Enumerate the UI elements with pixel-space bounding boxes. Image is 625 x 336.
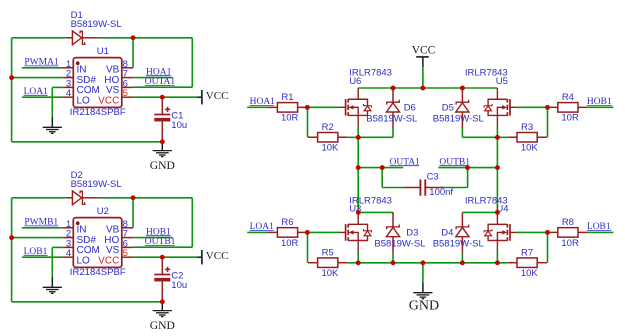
svg-text:VB: VB (106, 224, 120, 235)
wire (133, 246, 192, 248)
junction (460, 86, 465, 91)
net label OUTA1 (145, 77, 176, 87)
svg-text:10u: 10u (171, 120, 187, 131)
svg-text:R5: R5 (322, 247, 334, 258)
power port VCC (197, 250, 229, 264)
wire (307, 231, 339, 233)
svg-text:10K: 10K (321, 143, 339, 154)
junction (391, 260, 396, 265)
svg-text:R7: R7 (521, 247, 533, 258)
wire (51, 87, 53, 117)
svg-text:4: 4 (66, 248, 71, 259)
resistor R1 (268, 92, 308, 124)
svg-text:B5819W-SL: B5819W-SL (374, 239, 425, 250)
net label OUTB1 (439, 157, 470, 167)
ground (413, 293, 432, 299)
wire (12, 77, 63, 79)
wire (12, 37, 66, 39)
wire (461, 253, 463, 263)
svg-text:U6: U6 (349, 76, 361, 87)
wire (22, 227, 62, 229)
net label LOB1 (587, 222, 612, 232)
svg-text:10K: 10K (321, 268, 339, 279)
net label HOA1 (250, 97, 276, 107)
ground (153, 151, 172, 157)
resistor R8 (548, 217, 588, 249)
svg-text:VS: VS (106, 85, 120, 96)
ground (51, 117, 53, 127)
net label OUTB1 (145, 237, 176, 247)
junction (160, 299, 165, 304)
IC U1 IR2184SPBF gate driver (62, 46, 133, 118)
wire (22, 256, 62, 258)
wire (358, 87, 497, 89)
svg-text:10R: 10R (561, 238, 579, 249)
svg-text:VCC: VCC (206, 90, 229, 102)
svg-text:GND: GND (150, 159, 175, 172)
svg-text:IN: IN (77, 224, 87, 235)
svg-text:GND: GND (150, 319, 175, 332)
svg-text:5: 5 (123, 88, 128, 99)
junction (160, 255, 165, 260)
net label PWMB1 (24, 218, 58, 228)
wire (547, 107, 549, 137)
wire (97, 37, 192, 39)
svg-text:LO: LO (77, 96, 91, 107)
svg-text:R4: R4 (562, 92, 574, 103)
transistor U5 IRLR7843 (465, 68, 517, 126)
svg-text:HO: HO (104, 235, 119, 246)
wire (517, 231, 548, 233)
wire (22, 96, 62, 98)
junction (131, 195, 136, 200)
junction (160, 95, 165, 100)
wire (382, 167, 403, 169)
svg-text:D6: D6 (404, 103, 416, 114)
wire (133, 256, 197, 258)
svg-text:COM: COM (77, 245, 100, 256)
wire (547, 232, 549, 262)
wire (392, 127, 394, 137)
svg-text:4: 4 (66, 88, 71, 99)
svg-text:SD#: SD# (77, 235, 97, 246)
transistor U4 IRLR7843 (465, 196, 517, 251)
junction (131, 35, 136, 40)
junction (356, 165, 361, 170)
svg-text:VCC: VCC (206, 250, 229, 262)
svg-text:R1: R1 (281, 92, 293, 103)
resistor R4 (548, 92, 588, 124)
wire (462, 136, 497, 138)
junction (545, 230, 550, 235)
junction (495, 260, 500, 265)
ground (43, 127, 62, 133)
wire (467, 168, 469, 188)
svg-text:B5819W-SL: B5819W-SL (71, 179, 122, 190)
svg-text:10R: 10R (561, 113, 579, 124)
wire (392, 212, 394, 213)
junction (495, 135, 500, 140)
junction (9, 75, 14, 80)
svg-text:10K: 10K (521, 268, 539, 279)
svg-text:10R: 10R (281, 238, 299, 249)
transistor U6 IRLR7843 (339, 68, 392, 126)
junction (160, 139, 165, 144)
wire (191, 198, 193, 247)
wire (348, 262, 507, 264)
wire (133, 96, 197, 98)
wire (392, 253, 394, 263)
wire (357, 251, 359, 263)
wire (422, 67, 424, 88)
wire (307, 107, 309, 137)
wire (588, 231, 614, 233)
svg-text:B5819W-SL: B5819W-SL (366, 113, 417, 124)
net label LOB1 (24, 247, 48, 257)
net label HOB1 (587, 97, 612, 107)
svg-text:B5819W-SL: B5819W-SL (433, 113, 484, 124)
net label LOA1 (24, 87, 49, 97)
svg-text:VCC: VCC (98, 256, 119, 267)
resistor R2 (308, 122, 348, 154)
net label LOA1 (250, 222, 275, 232)
junction (356, 260, 361, 265)
wire (133, 237, 173, 239)
svg-text:IR2184SPBF: IR2184SPBF (70, 107, 126, 118)
svg-text:10K: 10K (521, 143, 539, 154)
svg-text:D4: D4 (441, 227, 453, 238)
svg-text:R3: R3 (521, 122, 533, 133)
capacitor C3 100nf (403, 172, 453, 199)
diode D6 B5819W-SL (366, 89, 417, 128)
svg-text:U1: U1 (97, 46, 109, 57)
wire (133, 77, 173, 79)
IC U2 IR2184SPBF gate driver (62, 206, 133, 278)
wire (52, 86, 62, 88)
svg-text:U2: U2 (97, 206, 109, 217)
wire (52, 246, 62, 248)
wire (461, 212, 463, 213)
wire (348, 136, 359, 138)
svg-text:VCC: VCC (98, 96, 119, 107)
svg-text:R6: R6 (281, 217, 293, 228)
svg-text:R8: R8 (562, 217, 574, 228)
transistor U3 IRLR7843 (339, 196, 392, 251)
wire (12, 237, 63, 239)
svg-text:VS: VS (106, 245, 120, 256)
wire (132, 38, 134, 68)
diode D4 B5819W-SL (433, 213, 484, 254)
diode D2 B5819W-SL (65, 170, 121, 205)
wire (588, 106, 614, 108)
svg-text:VCC: VCC (412, 45, 436, 57)
svg-text:B5819W-SL: B5819W-SL (71, 19, 122, 30)
capacitor C2 (154, 257, 187, 302)
net label OUTA1 (390, 157, 421, 167)
wire (11, 198, 13, 302)
ground (51, 277, 53, 287)
wire (307, 106, 339, 108)
svg-text:IR2184SPBF: IR2184SPBF (70, 267, 126, 278)
ground GND (161, 302, 163, 311)
wire (462, 211, 497, 213)
svg-text:R2: R2 (322, 122, 334, 133)
wire (461, 127, 463, 137)
junction (545, 105, 550, 110)
svg-text:5: 5 (123, 248, 128, 259)
capacitor C1 (154, 97, 187, 142)
svg-text:VB: VB (106, 64, 120, 75)
junction (465, 165, 470, 170)
diode D1 B5819W-SL (65, 10, 121, 45)
svg-text:SD#: SD# (77, 75, 97, 86)
wire (381, 168, 383, 188)
junction (356, 210, 361, 215)
svg-text:10R: 10R (281, 113, 299, 124)
power port VCC (412, 45, 436, 68)
junction (356, 135, 361, 140)
svg-text:D5: D5 (442, 103, 454, 114)
junction (391, 86, 396, 91)
junction (495, 165, 500, 170)
wire (12, 301, 163, 303)
wire (438, 167, 497, 169)
wire (517, 106, 548, 108)
svg-text:B5819W-SL: B5819W-SL (433, 239, 484, 250)
junction (380, 165, 385, 170)
junction (460, 260, 465, 265)
wire (422, 263, 424, 283)
wire (247, 231, 268, 233)
junction (305, 105, 310, 110)
resistor R6 (268, 217, 308, 249)
wire (51, 247, 53, 277)
svg-text:D3: D3 (406, 227, 418, 238)
svg-text:GND: GND (409, 299, 439, 314)
wire (358, 211, 393, 213)
wire (497, 136, 507, 138)
wire (358, 167, 382, 169)
wire (191, 38, 193, 87)
wire OUTB1 column (496, 126, 498, 213)
wire (443, 187, 468, 189)
wire (12, 141, 163, 143)
junction (420, 86, 425, 91)
resistor R5 (308, 247, 348, 279)
ground (153, 311, 172, 317)
wire (358, 136, 393, 138)
svg-text:COM: COM (77, 85, 100, 96)
svg-text:IN: IN (77, 64, 87, 75)
svg-text:10u: 10u (171, 280, 187, 291)
ground (43, 287, 62, 293)
svg-text:100nf: 100nf (429, 187, 453, 198)
junction (305, 230, 310, 235)
ground GND (422, 283, 424, 293)
wire OUTA1 column (357, 126, 359, 213)
diode D5 B5819W-SL (433, 89, 484, 128)
junction (9, 235, 14, 240)
wire (382, 187, 403, 189)
wire (132, 198, 134, 228)
wire (22, 67, 62, 69)
svg-text:C3: C3 (427, 172, 439, 183)
svg-text:HO: HO (104, 75, 119, 86)
svg-text:U5: U5 (496, 76, 508, 87)
wire (12, 197, 66, 199)
resistor R7 (507, 247, 547, 279)
wire (11, 38, 13, 142)
net label HOA1 (146, 67, 172, 77)
net label PWMA1 (24, 58, 59, 68)
net label HOB1 (146, 227, 171, 237)
ground GND (161, 142, 163, 151)
junction (495, 210, 500, 215)
junction (420, 260, 425, 265)
wire (133, 86, 192, 88)
svg-text:LO: LO (77, 256, 91, 267)
wire (307, 232, 309, 262)
power port VCC (197, 90, 229, 104)
wire (97, 197, 192, 199)
wire (247, 106, 268, 108)
resistor R3 (507, 122, 547, 154)
diode D3 B5819W-SL (374, 213, 425, 254)
wire (496, 251, 498, 263)
